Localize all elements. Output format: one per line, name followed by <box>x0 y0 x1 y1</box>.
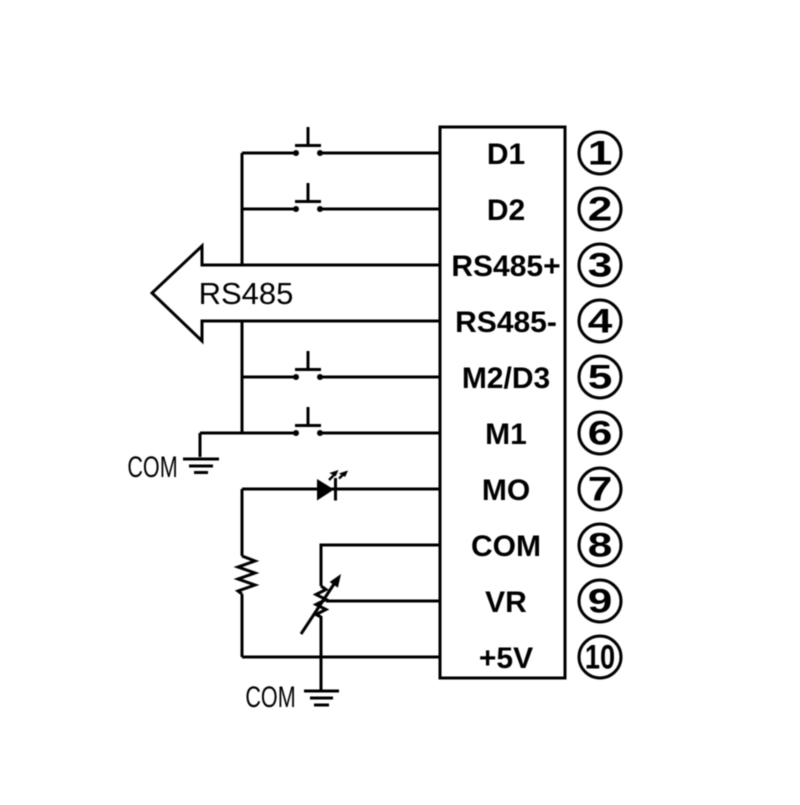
svg-text:7: 7 <box>588 470 613 508</box>
svg-text:8: 8 <box>588 526 613 564</box>
svg-text:RS485+: RS485+ <box>451 250 560 283</box>
svg-text:3: 3 <box>588 246 613 284</box>
svg-text:1: 1 <box>588 134 613 172</box>
svg-text:RS485: RS485 <box>199 276 294 311</box>
svg-text:10: 10 <box>585 638 615 677</box>
svg-text:MO: MO <box>482 474 530 507</box>
svg-text:5: 5 <box>588 358 613 396</box>
svg-text:M2/D3: M2/D3 <box>462 362 550 395</box>
svg-text:4: 4 <box>588 302 613 340</box>
svg-text:2: 2 <box>588 190 613 228</box>
svg-text:D2: D2 <box>487 194 525 227</box>
svg-text:6: 6 <box>588 414 613 452</box>
svg-text:M1: M1 <box>485 418 527 451</box>
svg-text:VR: VR <box>485 586 527 619</box>
svg-text:D1: D1 <box>487 138 525 171</box>
svg-text:RS485-: RS485- <box>455 306 557 339</box>
svg-text:9: 9 <box>588 582 613 620</box>
svg-text:COM: COM <box>245 679 295 713</box>
svg-text:+5V: +5V <box>479 642 533 675</box>
svg-text:COM: COM <box>471 530 541 563</box>
svg-text:COM: COM <box>127 449 177 483</box>
